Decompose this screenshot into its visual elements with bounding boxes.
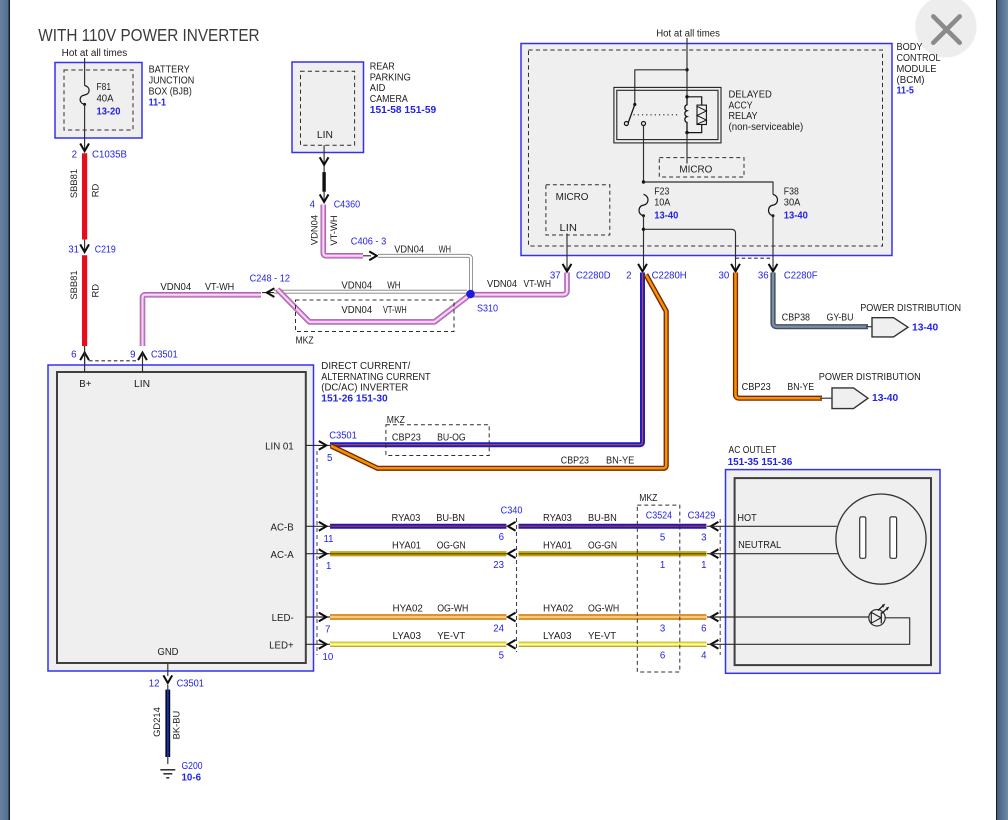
svg-text:F38: F38 bbox=[784, 187, 799, 198]
wire NEUTRAL lead bbox=[707, 553, 838, 555]
wire relay contact to fuses bbox=[643, 126, 645, 183]
svg-text:DIRECT CURRENT/: DIRECT CURRENT/ bbox=[321, 361, 410, 372]
connector C1035B arrow bbox=[80, 144, 89, 152]
svg-text:BU-BN: BU-BN bbox=[436, 513, 465, 524]
wire VDN04 WH upper bbox=[378, 256, 471, 293]
MICRO dashed box (LIN) bbox=[546, 185, 610, 235]
svg-text:MICRO: MICRO bbox=[556, 192, 589, 203]
ground symbol G200 bbox=[160, 770, 175, 778]
svg-text:BN-YE: BN-YE bbox=[787, 382, 814, 393]
svg-text:REAR: REAR bbox=[370, 61, 395, 72]
arrow LED- at C340 bbox=[508, 613, 516, 622]
pin arrow AC-A bbox=[319, 549, 327, 558]
wire HOT lead bbox=[707, 525, 837, 527]
svg-text:Hot at all times: Hot at all times bbox=[62, 48, 128, 59]
relay actuator dotted link bbox=[634, 114, 680, 116]
svg-text:C2280F: C2280F bbox=[784, 271, 818, 282]
camera inner dashed box bbox=[301, 71, 355, 145]
BCM inner dashed box bbox=[529, 50, 883, 246]
outlet receptacle circle bbox=[836, 494, 926, 584]
svg-text:151-35 151-36: 151-35 151-36 bbox=[728, 457, 793, 468]
arrow LED- at C3429 bbox=[711, 613, 719, 622]
connector C2280D arrow bbox=[563, 264, 572, 272]
svg-text:RYA03: RYA03 bbox=[543, 513, 572, 524]
svg-text:23: 23 bbox=[493, 560, 504, 571]
svg-text:GND: GND bbox=[158, 647, 179, 658]
svg-text:MODULE: MODULE bbox=[897, 64, 938, 75]
svg-text:SBB81: SBB81 bbox=[68, 169, 79, 198]
wire VDN04 VT-WH S310 to BCM bbox=[471, 273, 568, 295]
wire VDN04 WH to S310 bbox=[274, 290, 467, 294]
dashed connector line C340 bbox=[516, 518, 518, 652]
svg-text:RD: RD bbox=[89, 184, 100, 198]
svg-text:G200: G200 bbox=[182, 761, 204, 772]
svg-text:C340: C340 bbox=[501, 506, 523, 517]
pin line LIN 01 bbox=[306, 444, 330, 446]
relay pivot dot bbox=[633, 103, 636, 106]
svg-text:C2280H: C2280H bbox=[652, 271, 687, 282]
svg-text:LIN: LIN bbox=[134, 379, 150, 390]
svg-text:POWER DISTRIBUTION: POWER DISTRIBUTION bbox=[819, 372, 921, 383]
svg-text:11-5: 11-5 bbox=[897, 86, 915, 97]
wire CBP23 BU-OG (LIN01) bbox=[330, 273, 643, 445]
wire into inverter B+ bbox=[84, 346, 86, 372]
arrow AC-A at C3429 bbox=[711, 549, 719, 558]
pin arrow LED- bbox=[319, 613, 327, 622]
svg-text:CONTROL: CONTROL bbox=[897, 53, 942, 64]
relay resistor link bbox=[687, 97, 702, 133]
svg-text:OG-WH: OG-WH bbox=[437, 604, 468, 615]
wire VDN04 VT-WH MKZ loop bbox=[278, 289, 471, 322]
svg-text:30: 30 bbox=[719, 271, 730, 282]
svg-text:13-40: 13-40 bbox=[784, 211, 808, 222]
svg-text:CBP38: CBP38 bbox=[782, 313, 810, 324]
svg-text:11-1: 11-1 bbox=[149, 98, 167, 109]
svg-text:MKZ: MKZ bbox=[639, 493, 657, 504]
svg-text:C3501: C3501 bbox=[177, 679, 204, 690]
svg-text:3: 3 bbox=[660, 624, 665, 635]
left edge scrollbar strip bbox=[0, 0, 8, 820]
connector C3501 pin12 arrow bbox=[163, 675, 172, 683]
stub BN-YE to symbol bbox=[820, 397, 833, 399]
svg-text:YE-VT: YE-VT bbox=[588, 631, 616, 642]
connector C3501 pin6 arrow bbox=[80, 353, 89, 361]
svg-text:MICRO: MICRO bbox=[679, 164, 712, 175]
outlet slot left bbox=[860, 517, 866, 558]
connector C4360 arrow bbox=[320, 194, 329, 202]
close button bbox=[915, 0, 976, 57]
pin arrow LED+ bbox=[319, 640, 327, 649]
svg-text:VT-WH: VT-WH bbox=[524, 279, 552, 290]
svg-text:LYA03: LYA03 bbox=[393, 631, 422, 642]
wire CBP23 BN-YE (pin30) bbox=[736, 273, 823, 399]
svg-text:AC-A: AC-A bbox=[271, 550, 295, 561]
svg-text:13-40: 13-40 bbox=[654, 211, 678, 222]
wire AC-A segment 1 bbox=[330, 551, 506, 556]
arrow AC-A at C340 bbox=[508, 549, 516, 558]
arrow AC-B at C340 bbox=[508, 522, 516, 531]
svg-text:13-40: 13-40 bbox=[912, 323, 939, 334]
svg-text:WH: WH bbox=[387, 280, 400, 291]
svg-text:12: 12 bbox=[149, 679, 160, 690]
svg-text:3: 3 bbox=[701, 533, 706, 544]
fuse F38 30A bbox=[769, 194, 778, 215]
svg-text:YE-VT: YE-VT bbox=[437, 631, 465, 642]
power distribution symbol 2 bbox=[832, 388, 868, 409]
connector C3501 pin9 arrow bbox=[138, 353, 147, 361]
svg-text:SBB81: SBB81 bbox=[68, 270, 79, 299]
svg-text:4: 4 bbox=[701, 651, 707, 662]
MICRO dashed box (relay) bbox=[659, 158, 744, 177]
dashed link pins 6-9 bbox=[89, 360, 138, 362]
svg-text:C406 - 3: C406 - 3 bbox=[351, 237, 386, 248]
svg-text:BOX (BJB): BOX (BJB) bbox=[149, 87, 192, 98]
pin line AC-A bbox=[306, 553, 330, 555]
svg-text:(DC/AC) INVERTER: (DC/AC) INVERTER bbox=[321, 383, 408, 394]
wire F38 out to pin 36 bbox=[772, 216, 774, 271]
svg-text:ACCY: ACCY bbox=[729, 100, 753, 111]
svg-text:VDN04: VDN04 bbox=[309, 215, 320, 245]
relay contact circle A bbox=[624, 122, 628, 126]
wire branch to relay switch bbox=[635, 70, 687, 105]
svg-text:2: 2 bbox=[72, 150, 77, 161]
svg-text:VDN04: VDN04 bbox=[394, 244, 424, 255]
svg-text:1: 1 bbox=[701, 560, 706, 571]
wire GD214 BK-BU bar bbox=[165, 690, 170, 757]
svg-text:BN-YE: BN-YE bbox=[606, 455, 635, 466]
svg-text:RD: RD bbox=[89, 284, 100, 298]
svg-text:NEUTRAL: NEUTRAL bbox=[738, 540, 782, 551]
svg-text:(BCM): (BCM) bbox=[897, 75, 925, 86]
connector C2280F arrow bbox=[769, 264, 778, 272]
wire LIN black segment bbox=[323, 166, 325, 201]
outlet inner box bbox=[735, 478, 931, 665]
svg-text:RYA03: RYA03 bbox=[392, 513, 421, 524]
svg-text:VT-WH: VT-WH bbox=[205, 282, 234, 293]
camera pigtail arrow bbox=[320, 157, 329, 165]
svg-text:C3524: C3524 bbox=[646, 511, 673, 522]
wire LIN to pin 37 bbox=[566, 234, 568, 272]
svg-text:GY-BU: GY-BU bbox=[827, 313, 854, 324]
svg-text:C4360: C4360 bbox=[334, 199, 361, 210]
svg-text:151-58 151-59: 151-58 151-59 bbox=[370, 105, 437, 116]
wire branch to F38 bbox=[644, 182, 774, 194]
svg-text:OG-WH: OG-WH bbox=[588, 604, 619, 615]
svg-text:C3501: C3501 bbox=[151, 350, 178, 361]
svg-text:VDN04: VDN04 bbox=[341, 280, 372, 291]
connector C219 arrow bbox=[80, 244, 89, 252]
connector C2280H arrow bbox=[638, 264, 647, 272]
svg-text:BU-BN: BU-BN bbox=[588, 513, 617, 524]
outlet slot right bbox=[890, 517, 897, 558]
svg-text:VDN04: VDN04 bbox=[341, 305, 372, 316]
wire F23 out bbox=[643, 216, 645, 271]
svg-text:30A: 30A bbox=[784, 198, 801, 209]
connector C248-12 arrow bbox=[267, 288, 275, 297]
svg-text:JUNCTION: JUNCTION bbox=[149, 76, 195, 87]
svg-text:CBP23: CBP23 bbox=[561, 455, 589, 466]
relay switch arm bbox=[627, 105, 635, 126]
wire LIN black thick bbox=[322, 172, 325, 192]
arrow AC-B at C3429 bbox=[711, 522, 719, 531]
rear parking aid camera bbox=[292, 62, 364, 153]
pin line LED- bbox=[306, 616, 330, 618]
svg-text:MKZ: MKZ bbox=[296, 336, 314, 347]
wire stub at C248 bbox=[262, 292, 281, 294]
pin line LIN top bbox=[142, 353, 144, 373]
LED indicator symbol bbox=[869, 610, 885, 626]
svg-text:LIN: LIN bbox=[317, 130, 333, 141]
MKZ dashed box 3 bbox=[637, 505, 680, 672]
svg-text:GD214: GD214 bbox=[151, 707, 162, 737]
junction fuse feed bbox=[642, 180, 645, 183]
svg-text:5: 5 bbox=[327, 453, 332, 464]
connector C406-3 arrow bbox=[369, 251, 377, 260]
wire AC-B segment 1 bbox=[330, 524, 506, 529]
svg-text:S310: S310 bbox=[477, 304, 499, 315]
relay resistor bbox=[697, 105, 706, 124]
svg-text:1: 1 bbox=[660, 560, 665, 571]
svg-text:LED-: LED- bbox=[272, 613, 294, 624]
wire hot feed into BJB bbox=[84, 58, 86, 86]
svg-text:LIN: LIN bbox=[560, 223, 577, 234]
svg-text:POWER DISTRIBUTION: POWER DISTRIBUTION bbox=[860, 303, 961, 314]
svg-text:HYA01: HYA01 bbox=[392, 540, 421, 551]
wire at C219 bbox=[84, 240, 86, 253]
connector pin30 arrow bbox=[731, 264, 740, 272]
wire CBP38 GY-BU bbox=[773, 273, 868, 327]
relay coil bbox=[685, 97, 687, 133]
svg-text:10: 10 bbox=[323, 652, 334, 663]
wire SBB81 RD upper bbox=[82, 153, 87, 239]
dashed connector line C3429 bbox=[719, 519, 721, 655]
wire AC-B segment 2 bbox=[519, 524, 707, 529]
stub GY-BU to symbol bbox=[866, 326, 873, 328]
fuse F23 10A bbox=[639, 194, 648, 215]
svg-text:C3429: C3429 bbox=[688, 511, 716, 522]
pin line LED+ bbox=[306, 643, 330, 645]
relay coil bottom junction bbox=[685, 131, 688, 134]
dashed link pins 30-36 bbox=[736, 257, 774, 259]
wire relay coil to micro bbox=[686, 133, 688, 164]
svg-text:4: 4 bbox=[310, 199, 316, 210]
DC/AC inverter box bbox=[48, 365, 314, 671]
svg-text:2: 2 bbox=[626, 271, 631, 282]
arrow LED+ at C340 bbox=[508, 640, 516, 649]
right edge scrollbar strip bbox=[996, 0, 998, 820]
svg-text:VDN04: VDN04 bbox=[160, 282, 191, 293]
pin line GND bbox=[167, 663, 169, 676]
inverter inner box bbox=[57, 372, 306, 663]
wire LED+ segment 1 bbox=[330, 642, 506, 647]
junction F23 out bbox=[642, 228, 645, 231]
arrow LED+ at C3429 bbox=[711, 640, 719, 649]
wire LED+ lead bbox=[707, 618, 910, 645]
svg-text:36: 36 bbox=[758, 271, 769, 282]
svg-text:HYA02: HYA02 bbox=[543, 604, 573, 615]
svg-text:AC OUTLET: AC OUTLET bbox=[729, 445, 777, 456]
wire branch to pin 30 bbox=[644, 229, 736, 271]
svg-text:C248 - 12: C248 - 12 bbox=[250, 273, 290, 284]
pin arrow AC-B bbox=[319, 522, 327, 531]
relay coil top junction bbox=[685, 95, 688, 98]
svg-text:WH: WH bbox=[439, 244, 451, 255]
svg-text:5: 5 bbox=[499, 651, 504, 662]
svg-text:6: 6 bbox=[499, 532, 504, 543]
svg-text:5: 5 bbox=[660, 533, 665, 544]
svg-text:MKZ: MKZ bbox=[387, 415, 405, 426]
svg-text:6: 6 bbox=[660, 651, 665, 662]
svg-text:CBP23: CBP23 bbox=[742, 382, 771, 393]
svg-text:OG-GN: OG-GN bbox=[437, 540, 466, 551]
svg-text:C3501: C3501 bbox=[329, 431, 357, 442]
AC outlet box bbox=[726, 470, 941, 674]
delayed accy relay box bbox=[614, 87, 721, 142]
wire AC-A segment 2 bbox=[519, 551, 707, 556]
dashed connector line C3501 right bbox=[316, 451, 318, 655]
svg-text:F23: F23 bbox=[654, 187, 669, 198]
wire LED- segment 2 bbox=[519, 614, 707, 619]
svg-text:13-40: 13-40 bbox=[872, 393, 899, 404]
svg-text:BATTERY: BATTERY bbox=[149, 65, 191, 76]
svg-text:151-26 151-30: 151-26 151-30 bbox=[321, 393, 387, 404]
svg-text:CBP23: CBP23 bbox=[392, 433, 421, 444]
wire LED+ segment 2 bbox=[519, 642, 707, 647]
svg-text:LYA03: LYA03 bbox=[543, 631, 572, 642]
svg-text:PARKING: PARKING bbox=[370, 72, 411, 83]
pin arrow LIN 01 bbox=[319, 441, 327, 450]
wire LED- lead bbox=[707, 616, 869, 618]
wire GD214 BK-BU bbox=[167, 685, 169, 764]
svg-text:BU-OG: BU-OG bbox=[437, 433, 466, 444]
svg-text:C1035B: C1035B bbox=[92, 150, 127, 161]
svg-text:VT-WH: VT-WH bbox=[383, 305, 407, 316]
svg-text:10-6: 10-6 bbox=[182, 773, 202, 784]
svg-text:BK-BU: BK-BU bbox=[171, 710, 182, 739]
svg-text:HYA02: HYA02 bbox=[393, 604, 423, 615]
pin line B+ bbox=[84, 353, 86, 373]
svg-text:24: 24 bbox=[493, 623, 504, 634]
svg-text:40A: 40A bbox=[97, 94, 115, 105]
svg-text:OG-GN: OG-GN bbox=[588, 540, 617, 551]
wire VDN04 VT-WH from camera bbox=[323, 205, 363, 256]
svg-text:CAMERA: CAMERA bbox=[370, 94, 408, 105]
svg-text:AC-B: AC-B bbox=[271, 523, 294, 534]
svg-text:C2280D: C2280D bbox=[576, 271, 611, 282]
svg-text:37: 37 bbox=[550, 271, 561, 282]
BJB inner dashed box bbox=[64, 70, 133, 130]
relay contact circle B bbox=[642, 122, 646, 126]
battery junction box BJB bbox=[55, 63, 142, 139]
wire stub at C406 bbox=[363, 255, 371, 257]
svg-text:BODY: BODY bbox=[897, 42, 923, 53]
svg-text:(non-serviceable): (non-serviceable) bbox=[729, 122, 804, 133]
wire F81 to C1035B bbox=[84, 104, 86, 150]
wire camera LIN lead bbox=[323, 145, 325, 164]
wire CBP23 BN-YE (LIN01) bbox=[331, 275, 666, 469]
svg-text:HOT: HOT bbox=[737, 513, 756, 524]
svg-text:10A: 10A bbox=[654, 198, 670, 209]
svg-text:B+: B+ bbox=[79, 379, 91, 390]
svg-text:9: 9 bbox=[130, 350, 135, 361]
junction hot branch bbox=[685, 68, 688, 71]
power distribution symbol 1 bbox=[872, 318, 908, 337]
svg-text:VT-WH: VT-WH bbox=[328, 215, 339, 245]
svg-text:VDN04: VDN04 bbox=[487, 279, 518, 290]
MKZ dashed box 1 bbox=[296, 300, 455, 332]
svg-text:Hot at all times: Hot at all times bbox=[656, 29, 720, 40]
svg-text:7: 7 bbox=[325, 625, 330, 636]
svg-text:LIN 01: LIN 01 bbox=[265, 442, 294, 453]
wire SBB81 RD lower bbox=[82, 255, 87, 346]
svg-text:ALTERNATING CURRENT: ALTERNATING CURRENT bbox=[321, 372, 430, 383]
wire VDN04 VT-WH to C248 bbox=[143, 295, 262, 346]
svg-text:RELAY: RELAY bbox=[729, 111, 758, 122]
pin line AC-B bbox=[306, 525, 330, 527]
svg-text:DELAYED: DELAYED bbox=[729, 90, 772, 101]
fuse F81 40A bbox=[80, 86, 89, 105]
MKZ dashed box 2 bbox=[386, 425, 489, 456]
wire LED- segment 1 bbox=[330, 614, 506, 619]
svg-text:1: 1 bbox=[326, 561, 331, 572]
svg-text:HYA01: HYA01 bbox=[543, 540, 572, 551]
wire hot feed into BCM bbox=[686, 38, 688, 97]
svg-text:6: 6 bbox=[71, 350, 76, 361]
svg-text:F81: F81 bbox=[97, 82, 112, 93]
body control module BCM bbox=[521, 44, 892, 256]
splice S310 bbox=[466, 290, 475, 299]
svg-text:13-20: 13-20 bbox=[97, 107, 121, 118]
svg-text:WITH 110V POWER INVERTER: WITH 110V POWER INVERTER bbox=[38, 25, 259, 45]
svg-text:AID: AID bbox=[370, 83, 386, 94]
svg-text:6: 6 bbox=[701, 624, 706, 635]
svg-text:C219: C219 bbox=[95, 244, 116, 255]
svg-text:31: 31 bbox=[68, 244, 79, 255]
svg-text:LED+: LED+ bbox=[269, 641, 294, 652]
svg-text:11: 11 bbox=[324, 534, 334, 545]
